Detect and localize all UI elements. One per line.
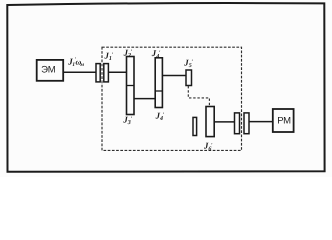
machine RM box [273,109,294,132]
idler rect [193,117,197,135]
svg-text:J5': J5' [183,57,193,69]
gear pair column 2 [155,58,162,108]
svg-text:РМ: РМ [277,116,291,127]
svg-text:J3': J3' [122,115,132,127]
wire sprocket 2 to coupling 2 [214,121,234,123]
wire coupling to gear column 1 [108,71,126,73]
wire output shaft to sprocket 1 [162,75,186,77]
svg-text:J1'ωм: J1'ωм [67,57,84,69]
coupling C1 left half [96,64,100,82]
border frame [7,3,324,172]
coupling C2 left half [235,113,240,134]
wire coupling 2 to RM [249,121,273,123]
wire motor shaft [63,71,96,73]
dashed reducer box [102,47,242,150]
svg-text:ЭМ: ЭМ [41,65,56,76]
svg-text:J4': J4' [155,111,165,123]
gear mesh line column 2 [155,90,162,92]
sprocket S2 [206,107,214,137]
wire intermediate shaft [134,98,155,100]
svg-text:J2': J2' [123,48,133,60]
svg-text:J4': J4' [151,48,161,60]
chain drive dashed link [188,86,209,106]
coupling C2 right half [244,113,249,134]
coupling C1 right half [104,64,109,82]
motor EM box [37,60,64,81]
sprocket S1 [186,70,192,86]
gear mesh line column 1 [127,85,135,87]
gear pair column 1 [127,57,135,115]
svg-text:J1': J1' [104,50,114,62]
svg-text:J6': J6' [203,141,213,153]
